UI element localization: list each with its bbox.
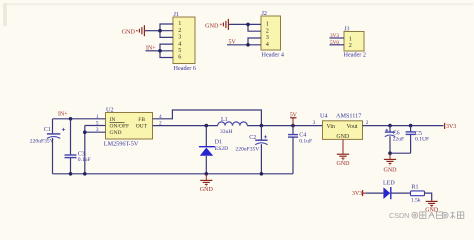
regulator U4 AMS1117	[320, 112, 363, 139]
svg-text:3V3: 3V3	[352, 191, 362, 197]
ground symbol below D1	[200, 174, 214, 193]
power port 5V	[290, 112, 298, 125]
svg-text:Vout: Vout	[347, 124, 358, 130]
ground rail wire	[53, 173, 294, 175]
svg-text:2: 2	[349, 42, 352, 49]
capacitor C6	[385, 126, 404, 154]
wire LED to R1	[391, 192, 411, 194]
svg-text:6: 6	[178, 54, 181, 61]
svg-text:OUT: OUT	[136, 124, 148, 130]
regulator U2 LM2596T-5V	[104, 106, 153, 147]
junction J2 gnd bus	[246, 23, 250, 27]
svg-text:0.1uF: 0.1uF	[78, 157, 91, 163]
wire L1 to U4	[247, 125, 322, 127]
wire GND to J1	[145, 30, 161, 32]
wire U2 pin3	[85, 131, 106, 133]
wire C5 bottom to C6 bottom	[390, 152, 411, 154]
wire GND to J2	[229, 23, 249, 25]
ground symbol below C6	[384, 153, 398, 173]
port 3V3 output	[445, 123, 457, 130]
junction tie rail	[83, 172, 87, 176]
junction J1 in+ bus	[158, 49, 162, 53]
svg-text:3V3: 3V3	[330, 33, 339, 39]
junction 5V C4 node	[291, 124, 295, 128]
watermark	[389, 211, 464, 220]
svg-text:Header 4: Header 4	[262, 52, 285, 59]
svg-text:FB: FB	[138, 117, 145, 123]
capacitor C4	[288, 126, 312, 174]
svg-text:LED: LED	[383, 180, 395, 186]
svg-text:GND: GND	[200, 187, 214, 193]
connector J1	[173, 11, 196, 72]
port 3V3 at LED	[352, 190, 366, 197]
svg-text:1.5k: 1.5k	[411, 197, 421, 203]
capacitor C1	[30, 119, 65, 174]
svg-text:GND: GND	[337, 161, 351, 167]
capacitor C2	[235, 126, 267, 174]
svg-text:3: 3	[313, 120, 316, 126]
resistor R1	[411, 185, 425, 204]
svg-text:IN+: IN+	[58, 111, 68, 117]
wire IN+ to U2 pin1	[53, 118, 106, 120]
wire IN+ to J1	[146, 50, 161, 52]
diode D1 ES2D	[199, 126, 228, 174]
svg-text:220uF35V: 220uF35V	[30, 138, 54, 144]
junction C2 FB node	[260, 124, 264, 128]
wire J1 pin stubs and bus pins 1-3	[160, 24, 173, 37]
junction C5 node	[409, 124, 413, 128]
svg-text:CSDN: CSDN	[389, 211, 409, 220]
wire 5V0 to J3 pin 2	[330, 44, 345, 46]
svg-text:Header 6: Header 6	[174, 65, 197, 72]
capacitor C5	[406, 126, 430, 154]
svg-text:22uF: 22uF	[393, 136, 405, 142]
wire U2 FB pin4 route	[153, 110, 262, 126]
svg-text:L1: L1	[221, 117, 228, 123]
svg-text:3V3: 3V3	[446, 124, 456, 130]
svg-text:Vin: Vin	[327, 124, 336, 130]
junction C2 rail	[260, 172, 264, 176]
wire J2 stubs and bus pins 3-4	[248, 38, 261, 45]
svg-text:GND: GND	[110, 130, 122, 136]
svg-text:U4: U4	[320, 112, 328, 119]
junction pin3 tie	[83, 130, 87, 134]
inductor L1	[218, 117, 248, 135]
wire U4 Vout to 3V3 port	[363, 125, 444, 127]
svg-text:ES2D: ES2D	[215, 146, 228, 152]
junction D1 node	[205, 124, 209, 128]
wire 3V3 to LED	[366, 192, 384, 194]
svg-text:AMS1117: AMS1117	[336, 112, 361, 119]
junction C3 top	[69, 117, 73, 121]
junction D1 rail	[205, 172, 209, 176]
wire 3V3 to J3 pin 1	[330, 37, 345, 39]
junction J2 5V bus	[246, 43, 250, 47]
svg-text:4: 4	[266, 41, 269, 48]
svg-text:C2: C2	[249, 135, 256, 141]
svg-text:D1: D1	[215, 140, 222, 146]
wire J1 pin stubs and bus pins 4-6	[160, 44, 173, 57]
wire U2 OUT pin2 to L1	[153, 125, 218, 127]
capacitor C3	[65, 119, 91, 174]
svg-text:Header 2: Header 2	[344, 51, 367, 58]
junction C6 node	[388, 124, 392, 128]
svg-text:IN+: IN+	[146, 46, 156, 52]
svg-text:IN: IN	[110, 117, 116, 123]
connector J2	[261, 10, 284, 59]
wire tie on/off gnd down to rail	[84, 126, 86, 174]
svg-text:GND: GND	[336, 134, 350, 140]
svg-text:ON/OFF: ON/OFF	[110, 124, 130, 130]
wire R1 to gnd	[425, 193, 432, 201]
ground symbol at J2	[221, 19, 229, 30]
connector J3	[344, 25, 367, 58]
svg-text:5V: 5V	[229, 40, 237, 46]
svg-text:33uH: 33uH	[220, 129, 232, 135]
svg-text:C1: C1	[44, 127, 51, 133]
junction C3 rail	[69, 172, 73, 176]
svg-text:0.1UF: 0.1UF	[415, 137, 429, 143]
svg-text:J1: J1	[174, 11, 180, 18]
svg-text:220uF35V: 220uF35V	[235, 146, 259, 152]
wire J2 stubs and bus pins 1-2	[248, 24, 261, 31]
diode LED	[383, 180, 395, 199]
svg-text:5V0: 5V0	[330, 40, 339, 46]
junction C6 gnd	[388, 151, 392, 155]
svg-text:J3: J3	[344, 25, 350, 32]
svg-text:LM2596T-5V: LM2596T-5V	[104, 140, 139, 147]
junction J1 gnd bus	[158, 29, 162, 33]
svg-text:GND: GND	[205, 22, 219, 29]
svg-text:U2: U2	[106, 106, 114, 113]
svg-text:GND: GND	[122, 29, 136, 36]
ground symbol below U4	[337, 139, 351, 167]
ground symbol after R1	[425, 201, 439, 213]
svg-text:R1: R1	[412, 185, 419, 191]
svg-text:J2: J2	[262, 10, 268, 17]
wire 5V to J2	[227, 44, 248, 46]
wire U2 pin5	[85, 125, 106, 127]
svg-text:0.1uF: 0.1uF	[299, 138, 312, 144]
svg-text:GND: GND	[384, 167, 398, 173]
ground symbol at J1	[137, 25, 145, 36]
